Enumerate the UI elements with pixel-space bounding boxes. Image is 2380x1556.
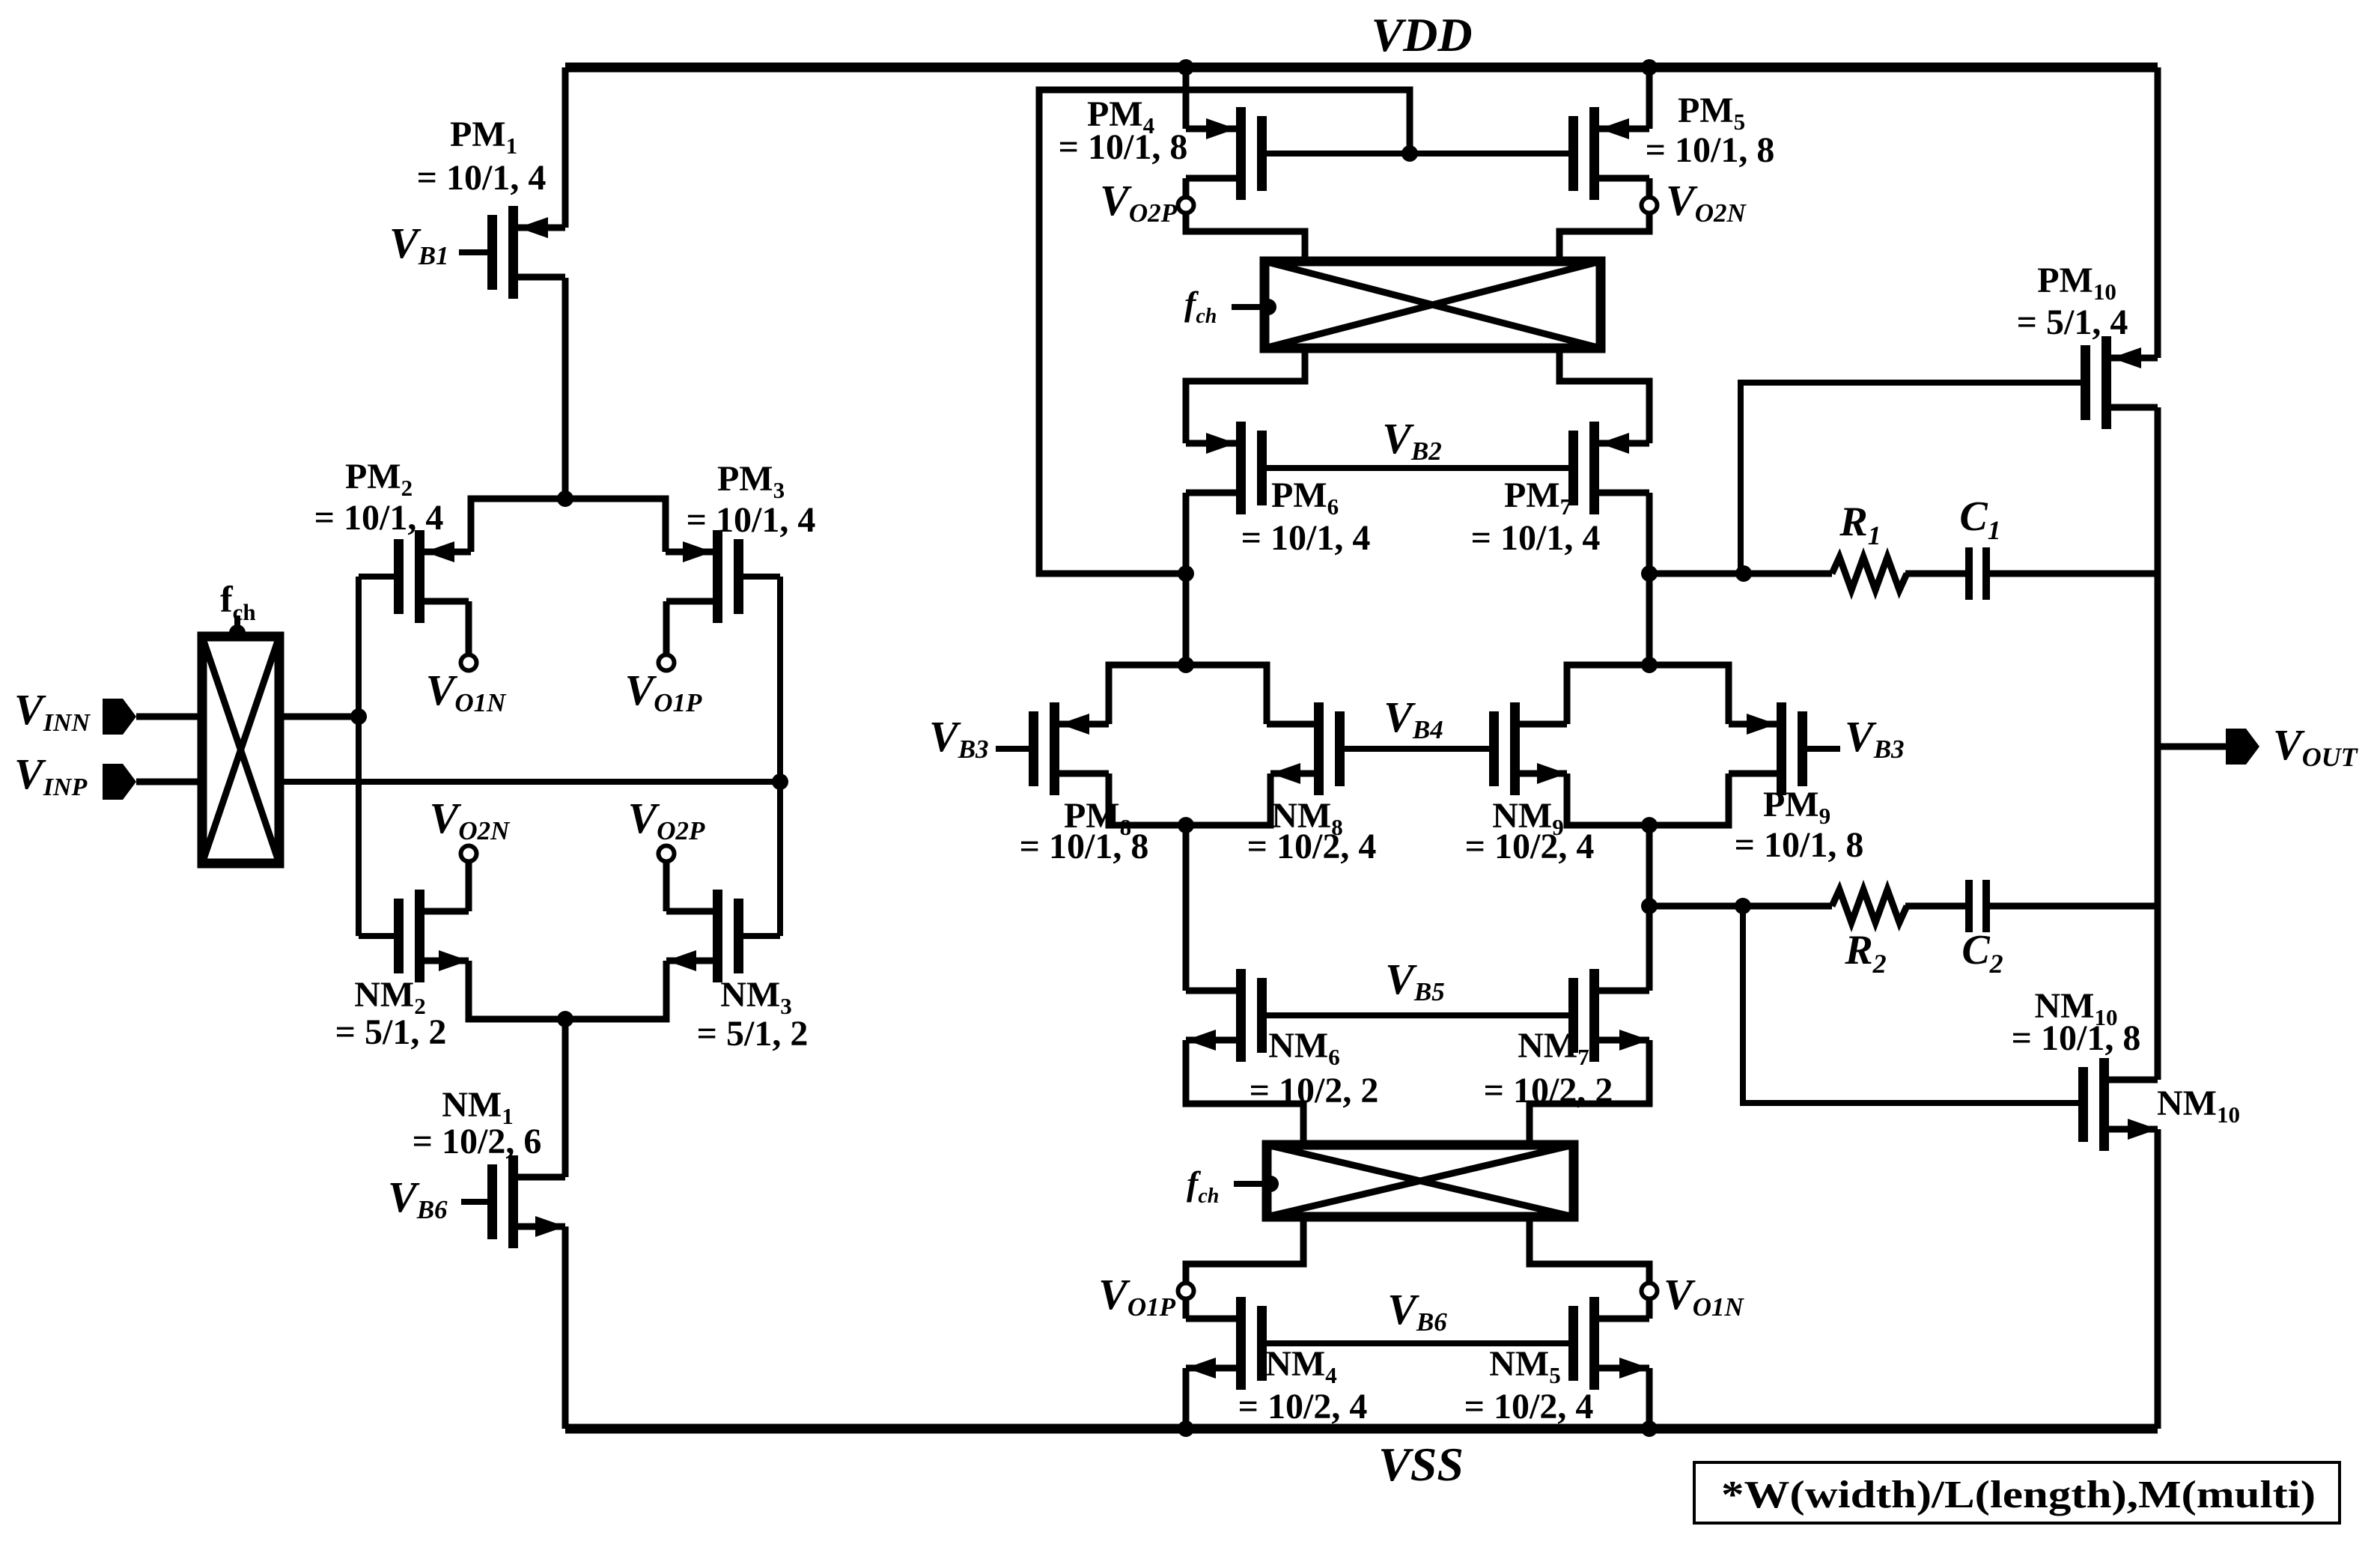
node VDD-PM4 [1178,59,1194,76]
wire PM4-PM5 gate line [1267,151,1568,156]
wire NM10 gate [1743,906,2078,1103]
transistor NM3 [713,890,722,982]
wire left gate column [356,577,362,936]
wire CH2 bottom-left [1186,348,1305,443]
wire PM3 drain [663,601,670,663]
node NM2-NM3 sources [557,1011,573,1027]
node cascode left [1178,565,1194,582]
wire PM7 drain [1646,493,1653,574]
wire C2 to output column [1990,903,2158,910]
wire PM6 drain [1183,493,1190,574]
wire PM4 drain [1186,178,1305,264]
transistor PM2 [415,530,424,623]
wire PM10 source to VDD [2155,67,2161,358]
resistor R2 [1832,890,1907,923]
transistor PM7 [1589,422,1599,514]
note box [1694,1462,2340,1523]
node right top [1641,657,1658,673]
wire NM5 source [1646,1368,1653,1429]
wire NM6 source [1186,1040,1303,1145]
capacitor C2 [1965,880,1973,932]
wire VINN [136,714,202,720]
svg-text:= 10/1, 8: = 10/1, 8 [2012,1018,2141,1058]
svg-text:= 10/1, 8: = 10/1, 8 [1646,130,1775,170]
svg-text:= 10/2, 4: = 10/2, 4 [1464,1387,1594,1426]
wire VINP to gates [279,779,780,785]
wire NM2 gate stub [359,933,394,939]
transistor NM2 [415,890,424,982]
wire right top bar [1567,665,1729,724]
node VSS-NM4 [1178,1420,1194,1437]
wire gates to cascode node [1039,90,1410,574]
transistor PM4 [1236,107,1246,200]
transistor NM6 [1236,969,1246,1062]
transistor NM7 [1589,969,1599,1062]
svg-text:= 5/1, 4: = 5/1, 4 [2017,303,2128,342]
svg-text:= 10/1, 4: = 10/1, 4 [687,500,816,540]
node left bottom [1178,817,1194,833]
node VINP-gates [772,774,788,790]
svg-text:= 10/1, 4: = 10/1, 4 [1471,518,1601,558]
svg-text:= 10/1, 8: = 10/1, 8 [1059,127,1188,167]
transistor NM4 [1236,1297,1246,1390]
transistor NM8 [1314,702,1324,795]
wire R1 row left [1649,571,1832,577]
node VO1N (stage2) [1642,1283,1658,1299]
svg-text:= 10/2, 4: = 10/2, 4 [1238,1387,1368,1426]
wire PM1 drain [562,278,569,499]
wire PM10 drain column [2155,407,2161,1080]
node VO1P [659,655,675,671]
transistor PM1 [508,206,518,299]
wire PM3 gate stub [743,574,780,580]
wire VB3-PM9 gate [1807,746,1840,752]
wire NM3 drain [663,854,670,911]
chopper CH1 (input) [202,636,279,863]
transistor PM3 [713,530,722,623]
node VO1N [461,655,477,671]
svg-text:= 10/2, 4: = 10/2, 4 [1465,827,1595,866]
wire fch stub [234,616,240,639]
wire VB6-NM1 gate [461,1199,487,1205]
wire PM5 drain [1559,178,1649,264]
wire VB1-PM1 gate [459,249,487,255]
wire right column lower [1646,825,1653,991]
transistor PM9 [1777,702,1786,795]
wire fch stub CH3 [1234,1181,1269,1187]
wire left top bar [1109,665,1267,724]
wire right column [1646,574,1653,665]
wire VB6 gate line [1267,1340,1568,1346]
node cascode right [1641,565,1658,582]
wire PM2 drain [466,601,472,663]
resistor R1 [1832,557,1907,590]
node VO2N (stage2) [1642,198,1658,213]
node VINN-gates [350,708,367,725]
node NM10 gate-R2 [1735,898,1751,914]
wire stage1 top [471,499,666,552]
svg-text:= 10/1, 8: = 10/1, 8 [1735,825,1864,865]
wire R2 row left [1649,903,1832,910]
wire NM7 source [1530,1040,1649,1145]
wire CH3 bottom-left [1186,1217,1303,1319]
wire fch stub CH2 [1232,304,1267,310]
chopper CH3 [1267,1145,1574,1217]
svg-text:= 5/1, 2: = 5/1, 2 [697,1014,809,1054]
node VO2N [461,846,477,862]
wire PM1 source to VDD [562,67,569,228]
transistor NM9 [1510,702,1520,795]
transistor NM10 [2099,1058,2109,1151]
svg-text:VSS: VSS [1378,1438,1464,1491]
wire VB3-PM8 gate [996,746,1029,752]
wire VINN to gates [279,714,359,720]
wire stage1 bottom [469,961,666,1019]
svg-text:VDD: VDD [1371,8,1472,61]
wire CH3 bottom-right [1530,1217,1649,1319]
node R2 left [1641,898,1658,914]
svg-text:= 10/1, 4: = 10/1, 4 [417,158,547,198]
wire VDD rail [565,63,2158,73]
wire right gate column [777,577,783,936]
node VSS-NM5 [1641,1420,1658,1437]
wire NM1 drain [562,1019,569,1177]
wire left column [1183,574,1190,665]
wire right bottom bar [1567,774,1729,825]
node VDD-PM5 [1641,59,1658,76]
wire left column lower [1183,825,1190,991]
capacitor C1 [1965,547,1973,600]
transistor PM5 [1589,107,1599,200]
node VO2P [659,846,675,862]
wire VB4 gate line [1345,746,1489,752]
svg-text:= 10/1, 4: = 10/1, 4 [1241,518,1371,558]
node right bottom [1641,817,1658,833]
wire VSS rail [565,1424,2158,1434]
wire R1-C1 [1905,571,1966,577]
wire left bottom bar [1109,774,1270,825]
svg-text:= 10/1, 8: = 10/1, 8 [1020,827,1149,866]
wire PM4 source [1183,67,1190,129]
wire NM2 drain [466,854,472,911]
node VO1P (stage2) [1178,1283,1194,1299]
wire NM3 gate stub [743,933,780,939]
chopper CH2 [1264,261,1601,348]
node PM4-PM5 gates [1401,145,1418,162]
port VOUT [2158,744,2226,750]
transistor PM10 [2101,336,2111,429]
node PM10 gate-R1 [1735,565,1752,582]
wire CH2 bottom-right [1559,348,1649,443]
wire R2-C2 [1905,903,1966,910]
svg-text:*W(width)/L(length),M(multi): *W(width)/L(length),M(multi) [1721,1474,2316,1516]
svg-text:= 10/2, 6: = 10/2, 6 [413,1122,542,1161]
transistor NM1 [508,1155,518,1248]
svg-text:= 5/1, 2: = 5/1, 2 [335,1012,447,1052]
transistor PM6 [1236,422,1246,514]
node VO2P (stage2) [1178,198,1194,213]
svg-text:= 10/1, 4: = 10/1, 4 [314,498,444,538]
wire VB2 gate line [1267,465,1568,471]
wire VB5 gate line [1267,1012,1568,1018]
node PM2-PM3 sources [557,490,573,507]
wire PM5 source [1646,67,1653,129]
wire NM4 source [1183,1368,1190,1429]
wire NM10 source to VSS [2155,1129,2161,1429]
transistor PM8 [1050,702,1059,795]
transistor NM5 [1589,1297,1599,1390]
wire PM2 gate stub [359,574,394,580]
wire NM1 source to VSS [562,1227,569,1429]
wire VINP [136,779,202,785]
wire C1 to output column [1990,571,2158,577]
svg-text:= 10/2, 4: = 10/2, 4 [1247,827,1377,866]
node left top [1178,657,1194,673]
wire PM10 gate [1741,383,2081,574]
